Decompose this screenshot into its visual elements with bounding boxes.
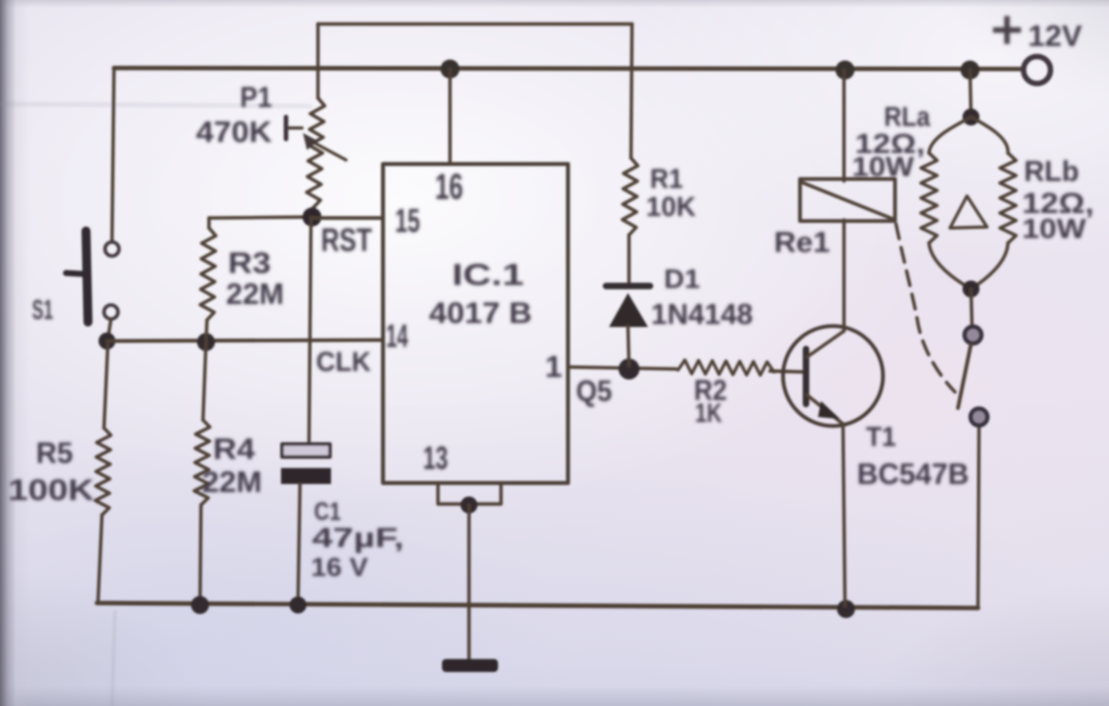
svg-text:BC547B: BC547B xyxy=(857,458,969,491)
resistor R5 100K xyxy=(104,341,108,428)
svg-text:R3: R3 xyxy=(228,247,271,280)
node: RST junction xyxy=(303,208,322,227)
node: lamp bottom xyxy=(963,281,980,298)
node: Vdd junction pin16 xyxy=(441,60,460,79)
svg-text:13: 13 xyxy=(423,440,448,476)
relay Re1 coil xyxy=(842,70,845,181)
wire: pin13 to ground xyxy=(467,505,470,660)
node: emitter bottom xyxy=(837,600,855,618)
IC U1 4017B box xyxy=(383,164,568,483)
wire: CLK line to IC pin 14 xyxy=(107,340,383,341)
relay linkage (dashed) xyxy=(896,224,955,392)
wire: pin 16 lead xyxy=(448,69,451,164)
svg-text:10W: 10W xyxy=(852,151,915,182)
capacitor C1 47uF xyxy=(282,444,330,457)
node: C1 bottom xyxy=(290,597,307,614)
potentiometer P1 470K xyxy=(307,98,325,208)
node: D1 junction xyxy=(619,359,640,380)
resistor R2 1K xyxy=(678,360,774,375)
svg-text:D1: D1 xyxy=(664,264,700,294)
svg-text:Re1: Re1 xyxy=(774,227,830,259)
pin 13 bracket xyxy=(438,483,501,504)
relay contact top xyxy=(965,327,982,344)
svg-text:T1: T1 xyxy=(866,421,896,452)
svg-text:RST: RST xyxy=(321,222,372,258)
lamp triangle symbol xyxy=(950,196,987,228)
node: R4 bottom xyxy=(191,596,209,614)
svg-text:470K: 470K xyxy=(196,116,272,149)
resistor R3 22M xyxy=(209,217,313,218)
wire: Q5 output from pin 1 xyxy=(568,367,676,369)
svg-text:R1: R1 xyxy=(650,163,683,194)
svg-text:R5: R5 xyxy=(36,437,73,470)
svg-text:P1: P1 xyxy=(240,82,272,114)
wire: RST node down to C1 xyxy=(309,217,311,443)
node: pin13 junction xyxy=(461,497,478,514)
svg-text:10K: 10K xyxy=(646,191,696,222)
wire: P1 top lead xyxy=(316,24,319,98)
svg-text:47µF,: 47µF, xyxy=(312,522,404,553)
svg-text:12V: 12V xyxy=(1028,20,1082,53)
wire: top link P1-to-R1 xyxy=(318,22,632,26)
svg-text:CLK: CLK xyxy=(316,346,371,377)
label +12V xyxy=(993,16,1021,44)
wire: collector up to relay xyxy=(842,220,845,331)
node: R3/R4 junction xyxy=(197,333,215,351)
svg-text:S1: S1 xyxy=(32,294,53,325)
node: relay supply junction xyxy=(836,61,855,80)
switch S1 xyxy=(105,242,119,256)
svg-text:R4: R4 xyxy=(213,433,255,466)
transistor T1 BC547B xyxy=(783,326,883,426)
lamp RLa / RLb pair xyxy=(970,70,971,115)
svg-text:16: 16 xyxy=(435,166,463,207)
svg-text:4017 B: 4017 B xyxy=(429,297,532,330)
svg-text:100K: 100K xyxy=(8,474,94,507)
wire: +12V supply rail xyxy=(114,68,1023,69)
resistor R4 22M xyxy=(203,342,206,420)
svg-text:16 V: 16 V xyxy=(311,552,369,582)
diode D1 1N4148 xyxy=(606,283,650,290)
ground symbol xyxy=(442,659,498,672)
P1 wiper arrow xyxy=(309,140,346,160)
wire: lamp bottom to contact xyxy=(971,289,972,326)
svg-text:22M: 22M xyxy=(202,466,262,499)
wire: rail up to relay contact xyxy=(978,426,979,608)
svg-text:14: 14 xyxy=(386,318,408,354)
node: lamp top xyxy=(963,109,980,126)
svg-text:IC.1: IC.1 xyxy=(452,257,524,292)
svg-text:22M: 22M xyxy=(226,278,284,311)
relay contact blade xyxy=(958,344,971,408)
svg-text:1N4148: 1N4148 xyxy=(651,299,753,331)
svg-text:10W: 10W xyxy=(1022,213,1087,244)
wire: S1 to clock node xyxy=(108,319,111,338)
wire: emitter down to rail xyxy=(843,424,845,606)
svg-text:RLb: RLb xyxy=(1024,156,1079,188)
svg-text:1: 1 xyxy=(545,349,562,384)
resistor R1 10K xyxy=(631,24,632,158)
svg-text:Q5: Q5 xyxy=(576,375,612,408)
wire: left drop to S1 xyxy=(112,68,114,242)
wire: RST to IC pin 15 xyxy=(312,216,383,220)
svg-text:15: 15 xyxy=(395,202,420,239)
node: lamp supply junction xyxy=(961,61,980,80)
terminal: +12V xyxy=(1024,57,1051,84)
wire: ground rail (bottom) xyxy=(97,603,978,608)
node: clock junction xyxy=(99,333,116,350)
relay contact bottom xyxy=(971,409,988,426)
svg-text:1K: 1K xyxy=(695,398,722,428)
